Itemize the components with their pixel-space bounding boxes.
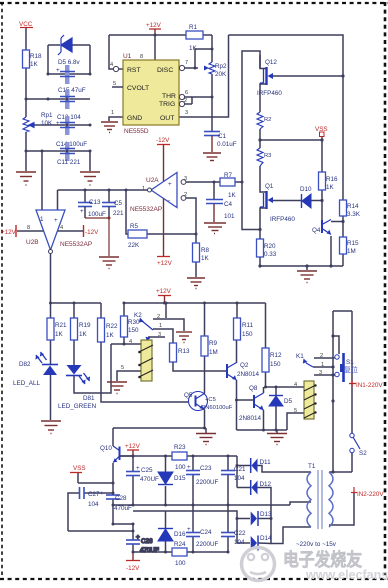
- wire R5 to node: [147, 233, 196, 235]
- wire OUT to rail riser: [179, 35, 229, 117]
- wire D12 anode to lower bridge bus: [258, 488, 312, 544]
- wire node row y=140: [260, 139, 322, 141]
- svg-text:LED_GREEN: LED_GREEN: [58, 403, 97, 410]
- junction dots PSU: [112, 427, 335, 554]
- svg-text:R14: R14: [347, 203, 359, 210]
- svg-text:1K: 1K: [201, 255, 210, 262]
- wire row y=74: [48, 73, 90, 75]
- svg-text:IRFP460: IRFP460: [257, 90, 282, 97]
- ground under caps: [99, 257, 119, 269]
- svg-text:CVOLT: CVOLT: [127, 85, 149, 92]
- wire R7 to gate line: [235, 181, 242, 183]
- svg-text:3: 3: [158, 332, 161, 338]
- wire C27 right lead: [84, 492, 113, 494]
- wire D10 to R16 node: [311, 200, 322, 202]
- resistor R5 22K: [128, 230, 147, 238]
- resistor R30: [121, 316, 128, 337]
- wire bridge feed riser: [236, 456, 238, 488]
- svg-text:-12V: -12V: [85, 229, 99, 236]
- wire node to Q4 base: [321, 201, 323, 222]
- LED D81 LED_GREEN: [66, 365, 90, 384]
- junction dots U2 cluster: [84, 181, 244, 236]
- svg-text:T1: T1: [308, 463, 316, 470]
- wire Q10 emitter to C28: [112, 463, 114, 495]
- wire +12V rail segment B: [124, 302, 266, 304]
- svg-text:GND: GND: [127, 115, 142, 122]
- capacitor C24 2200UF: [186, 533, 200, 537]
- wire R2 to node row140: [259, 129, 261, 148]
- svg-text:LED_ALL: LED_ALL: [13, 380, 40, 387]
- wire right ground drop: [89, 151, 91, 171]
- capacitor C4 101: [206, 200, 223, 204]
- svg-text:NE5532AP: NE5532AP: [130, 206, 162, 213]
- svg-text:100uF: 100uF: [88, 211, 106, 218]
- svg-text:C23: C23: [200, 465, 212, 472]
- svg-text:Q4: Q4: [312, 227, 321, 234]
- svg-text:2: 2: [184, 192, 187, 198]
- svg-text:+: +: [56, 120, 60, 127]
- svg-text:Q1: Q1: [265, 183, 274, 190]
- wire R18 to row99: [25, 68, 27, 99]
- svg-text:3: 3: [184, 176, 187, 182]
- wire coil2 pin5 drop: [287, 413, 304, 430]
- wire K2 pin2 to ground: [153, 319, 184, 331]
- wire R21 stubs: [50, 303, 52, 318]
- svg-text:C15 47uF: C15 47uF: [58, 87, 86, 94]
- wire R13 to Q2 base: [173, 362, 226, 371]
- svg-text:C21: C21: [234, 466, 246, 473]
- wire Q1 drain link to D10: [273, 200, 301, 202]
- wire raw+ row y=456: [120, 455, 172, 457]
- svg-text:IN1-220V: IN1-220V: [356, 382, 383, 389]
- svg-text:Q2: Q2: [240, 362, 249, 369]
- wire VSS stem: [77, 473, 79, 483]
- potentiometer Rp1 10K: [23, 117, 36, 132]
- svg-text:100: 100: [175, 560, 186, 567]
- capacitor C25 470UF: [126, 472, 140, 476]
- svg-text:R19: R19: [79, 322, 91, 329]
- wire mid rail y=505: [113, 504, 290, 506]
- svg-text:U2B: U2B: [26, 239, 39, 246]
- svg-text:U1: U1: [123, 53, 132, 60]
- wire Q1 source to R20: [260, 208, 266, 239]
- svg-text:C26: C26: [141, 538, 153, 545]
- svg-text:2200UF: 2200UF: [196, 479, 219, 486]
- wire pin8 +12V feed: [17, 230, 44, 232]
- LED D82 LED_ALL: [35, 352, 58, 375]
- svg-text:0.33: 0.33: [264, 251, 277, 258]
- wire K1 pin2 stub: [314, 357, 335, 359]
- svg-text:R11: R11: [242, 322, 254, 329]
- svg-text:NE555D: NE555D: [124, 128, 149, 135]
- wire R9 stubs: [204, 303, 206, 336]
- wire C28 bottom to row524: [112, 499, 114, 524]
- svg-text:1M: 1M: [209, 349, 218, 356]
- svg-text:+: +: [168, 181, 172, 188]
- svg-text:6: 6: [185, 90, 188, 96]
- wire node row y=387: [266, 386, 305, 388]
- diode D5 (vertical): [269, 396, 283, 406]
- resistor R8 1K: [193, 243, 200, 262]
- svg-text:1: 1: [321, 362, 324, 368]
- svg-text:5: 5: [121, 365, 124, 371]
- wire +12V rail segment A: [51, 302, 102, 304]
- svg-text:1K: 1K: [189, 45, 198, 52]
- wire VSS drop to R16: [321, 140, 323, 172]
- svg-text:C4: C4: [224, 201, 233, 208]
- svg-text:-: -: [168, 197, 170, 204]
- wire C13b stem: [84, 190, 86, 202]
- wire RST stub: [119, 68, 123, 70]
- wire Q12 source down to R2: [260, 84, 266, 112]
- svg-text:+: +: [187, 526, 191, 533]
- wire RST riser: [109, 35, 113, 69]
- wire VSS row y=483: [78, 482, 113, 484]
- svg-text:THR: THR: [162, 93, 176, 100]
- cap ground tie (dark red): [85, 218, 109, 256]
- svg-text:D10: D10: [300, 186, 312, 193]
- wire C23/C24 column: [192, 456, 194, 470]
- ground right: [80, 172, 100, 185]
- ground left: [16, 172, 36, 185]
- svg-text:3.3K: 3.3K: [347, 211, 361, 218]
- svg-text:150: 150: [242, 331, 253, 338]
- svg-text:C24: C24: [200, 529, 212, 536]
- svg-text:3: 3: [319, 370, 322, 376]
- wire R11 stubs: [236, 303, 238, 318]
- capacitor C13 104: [65, 90, 70, 109]
- ground bottom-mid: [297, 271, 317, 283]
- transistor Q12 IRFP460 (n-mosfet): [260, 67, 267, 85]
- wire row y=524: [113, 523, 133, 525]
- diode D12: [250, 480, 252, 495]
- svg-text:22K: 22K: [128, 242, 140, 249]
- svg-text:R30: R30: [128, 319, 140, 326]
- svg-text:1K: 1K: [106, 332, 115, 339]
- capacitor C11 221: [65, 142, 70, 161]
- resistor R9 1M: [201, 336, 208, 356]
- wire T1 primary top: [329, 471, 352, 473]
- svg-text:D13: D13: [260, 511, 272, 518]
- capacitor C15 47uF: [65, 65, 70, 84]
- svg-text:470UF: 470UF: [140, 547, 159, 554]
- wire D5 stems: [275, 387, 277, 395]
- wire Q8 collector riser: [263, 387, 265, 393]
- wire D5 row segment: [48, 44, 60, 46]
- wire PSU top rail y=428: [113, 427, 205, 429]
- wire Q12 top stub: [260, 55, 266, 69]
- svg-text:D81: D81: [83, 395, 95, 402]
- wire right loop vertical lower: [351, 452, 353, 472]
- op-amp U2A NE5532AP (points left): [151, 173, 177, 208]
- svg-text:S2: S2: [359, 450, 367, 457]
- svg-text:20K: 20K: [215, 71, 227, 78]
- svg-text:4: 4: [294, 382, 297, 388]
- svg-text:RST: RST: [127, 67, 141, 74]
- wire D11 cathode stub: [237, 465, 250, 467]
- ground under D82: [41, 421, 61, 434]
- svg-text:+12V: +12V: [125, 443, 141, 450]
- wire Q10 collector drop: [112, 428, 114, 446]
- svg-text:R15: R15: [347, 240, 359, 247]
- capacitor C1 0.01uF: [204, 132, 220, 136]
- svg-text:221: 221: [113, 210, 124, 217]
- wire K2 pin1 to R13: [153, 329, 173, 343]
- power port VCC: [19, 21, 33, 28]
- wire THR stub: [185, 96, 192, 98]
- wire U2A pin3 stub: [186, 181, 220, 183]
- svg-text:VSS: VSS: [73, 465, 86, 472]
- diode D15: [158, 472, 173, 484]
- svg-text:4: 4: [60, 225, 63, 231]
- transistor Q1 IRFP460 (n-mosfet): [260, 191, 267, 209]
- svg-text:104: 104: [234, 475, 245, 482]
- svg-text:D14: D14: [260, 535, 272, 542]
- zener diode D5 6.8v: [58, 35, 72, 55]
- svg-text:IN2-220V: IN2-220V: [357, 491, 384, 498]
- junction dots 555: [154, 34, 214, 99]
- svg-text:R8: R8: [201, 247, 210, 254]
- svg-text:C13: C13: [89, 199, 101, 206]
- ground next to Q5 emitter: [196, 434, 216, 445]
- junction dots top-left: [25, 73, 92, 153]
- svg-text:C5: C5: [114, 200, 123, 207]
- wire C21/C22 column: [227, 456, 229, 470]
- wire C5b stem: [108, 190, 110, 202]
- wire C27 left lead: [68, 493, 79, 531]
- wire pin8 feed: [154, 35, 156, 60]
- svg-text:Rp1: Rp1: [41, 112, 53, 119]
- transistor Q8 2N8014: [254, 393, 264, 410]
- svg-text:TRIG: TRIG: [159, 101, 175, 108]
- resistor R7: [220, 178, 235, 186]
- wire D5 row y=45 left drop: [47, 45, 49, 74]
- power port -12V (right of U2B): [83, 225, 85, 237]
- resistor R2 (small zigzag): [257, 112, 263, 129]
- svg-text:4: 4: [110, 62, 113, 68]
- resistor R14: [340, 200, 347, 216]
- wire Q4 collector to R14/R15 node: [331, 221, 343, 223]
- wire coil1 pin5 to ground: [117, 371, 141, 381]
- svg-text:150: 150: [128, 327, 139, 334]
- transistor Q4: [322, 220, 331, 235]
- wire Q8 emitter down: [263, 410, 265, 430]
- svg-text:D82: D82: [19, 361, 31, 368]
- resistor R16: [319, 172, 326, 190]
- svg-text:R23: R23: [174, 444, 186, 451]
- svg-text:D5 6.8v: D5 6.8v: [58, 59, 81, 66]
- svg-text:2N8014: 2N8014: [239, 415, 262, 422]
- svg-text:www.elecfans.com: www.elecfans.com: [305, 568, 388, 582]
- pushbutton S1: [335, 355, 339, 359]
- svg-text:D5: D5: [284, 398, 293, 405]
- wire Q12 drain link y=75.5: [273, 75, 343, 77]
- wire R30 to coil pin4: [123, 337, 125, 344]
- wire D15 stems: [165, 456, 167, 472]
- wire bottom row y=266: [260, 265, 343, 267]
- svg-text:1: 1: [159, 323, 162, 329]
- wire D16 stems: [165, 511, 167, 528]
- svg-text:+12V: +12V: [157, 260, 173, 267]
- wire +12V rail y=35: [109, 34, 186, 36]
- svg-text:8: 8: [27, 225, 30, 231]
- svg-text:R13: R13: [178, 348, 190, 355]
- svg-text:100: 100: [175, 464, 186, 471]
- svg-text:R16: R16: [326, 176, 338, 183]
- wire D13 anode stub: [237, 518, 250, 520]
- resistor R15: [340, 237, 347, 254]
- wire D12 cathode stub: [237, 487, 250, 489]
- wire R30 branch: [123, 303, 125, 316]
- diode D11: [250, 458, 252, 473]
- svg-text:C22: C22: [234, 530, 246, 537]
- svg-text:10K: 10K: [41, 120, 53, 127]
- resistor R23 100: [172, 452, 187, 460]
- wire D14 cathode stub: [259, 542, 272, 545]
- wire DISC to pot wiper: [185, 67, 198, 69]
- wire raw- row y=552: [133, 551, 172, 553]
- wire pot to C1: [211, 74, 213, 131]
- svg-text:NE5532AP: NE5532AP: [60, 241, 92, 248]
- resistor R21: [47, 318, 54, 340]
- svg-text:2: 2: [320, 353, 323, 359]
- op-amp U1 NE555D body: [123, 60, 179, 125]
- wire R12 to node387: [265, 372, 267, 387]
- potentiometer Rp2 20K: [209, 62, 215, 74]
- wire wiper row y=125: [31, 124, 90, 126]
- svg-text:+12V: +12V: [1, 229, 17, 236]
- wire T1 mid tap: [290, 502, 311, 505]
- svg-text:R7: R7: [224, 172, 233, 179]
- wire C25 stems: [132, 456, 134, 471]
- svg-text:R9: R9: [209, 340, 218, 347]
- svg-text:R24: R24: [174, 541, 186, 548]
- svg-text:3: 3: [185, 110, 188, 116]
- svg-text:~220v to ~15v: ~220v to ~15v: [296, 541, 337, 548]
- svg-text:-12V: -12V: [126, 565, 140, 572]
- svg-text:R12: R12: [270, 352, 282, 359]
- capacitor C14 100uF: [65, 116, 70, 135]
- power port -12V (PSU bottom): [132, 552, 134, 560]
- wire Q10 base row: [120, 455, 134, 457]
- wire R16 bottom stub: [321, 190, 323, 201]
- wire R14 stubs: [342, 216, 344, 237]
- svg-text:C11 221: C11 221: [57, 159, 81, 166]
- svg-text:S1: S1: [346, 359, 354, 366]
- wire left ground drop: [25, 151, 27, 171]
- svg-text:7: 7: [185, 60, 188, 66]
- resistor R20: [257, 239, 264, 257]
- power port IN2-220V: [353, 487, 355, 493]
- resistor R19: [71, 318, 78, 340]
- svg-text:Rp2: Rp2: [215, 63, 227, 70]
- svg-text:+: +: [54, 217, 58, 224]
- svg-text:104: 104: [234, 539, 245, 546]
- op-amp U2B NE5532AP (points down): [36, 210, 65, 250]
- wire C26 stems: [132, 524, 134, 540]
- wire K1 pin3 stub: [314, 374, 335, 376]
- wire row y=531: [68, 530, 133, 532]
- wire D14 anode stub: [237, 542, 250, 544]
- wire GND pin: [109, 117, 123, 121]
- watermark logo circle: [242, 548, 275, 581]
- ground under R8: [187, 278, 205, 289]
- wire D81 cathode to relay: [74, 344, 111, 393]
- svg-text:C28: C28: [115, 495, 127, 502]
- wire R22 stubs: [100, 303, 102, 318]
- wire Q4 emitter down: [330, 236, 332, 266]
- power port +12V below U2A: [163, 199, 165, 257]
- wire Q2 to Q8 base: [237, 399, 255, 401]
- svg-text:101: 101: [224, 213, 235, 220]
- svg-text:C14 100uF: C14 100uF: [56, 141, 87, 148]
- svg-text:D16: D16: [174, 531, 186, 538]
- svg-text:R2: R2: [264, 117, 271, 123]
- svg-text:Q5: Q5: [184, 392, 193, 399]
- wire DISC branch up: [195, 49, 212, 68]
- wire D13 cathode stub: [259, 518, 272, 520]
- svg-text:复位: 复位: [344, 365, 358, 374]
- svg-text:+C5: +C5: [205, 397, 216, 403]
- svg-text:+: +: [187, 464, 191, 471]
- junction dots mid section: [49, 302, 335, 432]
- wire Q2 emitter down: [236, 380, 238, 430]
- svg-text:C1: C1: [218, 133, 227, 140]
- wire emitter row y=430: [237, 429, 288, 431]
- svg-text:+: +: [80, 208, 84, 215]
- capacitor C26 470UF: [126, 540, 140, 544]
- svg-text:C25: C25: [141, 467, 153, 474]
- wire rail B corner to R12: [265, 303, 267, 348]
- svg-text:1: 1: [40, 216, 44, 223]
- svg-text:2N60100uF: 2N60100uF: [202, 405, 233, 411]
- ground under row430: [267, 434, 287, 445]
- svg-text:R1: R1: [189, 24, 198, 31]
- wire TRIG stub: [185, 103, 192, 105]
- svg-text:IRFP460: IRFP460: [270, 216, 295, 223]
- svg-text:1K: 1K: [30, 61, 39, 68]
- resistor R22: [98, 318, 105, 342]
- svg-text:R20: R20: [264, 243, 276, 250]
- svg-text:1K: 1K: [228, 192, 237, 199]
- svg-text:R18: R18: [30, 53, 42, 60]
- svg-text:104: 104: [88, 501, 99, 508]
- ground under C4: [204, 223, 226, 234]
- svg-text:+12V: +12V: [156, 288, 172, 295]
- diode D14: [257, 536, 259, 551]
- svg-text:+: +: [136, 465, 140, 472]
- svg-text:2N8014: 2N8014: [237, 371, 260, 378]
- svg-text:C27: C27: [88, 491, 100, 498]
- wire K2 rail tap: [165, 303, 167, 318]
- svg-text:K2: K2: [134, 312, 142, 319]
- wire mid rail2 y=511: [133, 511, 237, 543]
- svg-text:2: 2: [184, 98, 187, 104]
- wire K1 pin1 stub: [313, 366, 333, 368]
- wire THR/TRIG tie: [192, 97, 212, 104]
- ground at 555 GND pin: [101, 122, 118, 133]
- capacitor C21 104: [221, 471, 235, 475]
- power port IN1-220V: [351, 380, 353, 387]
- svg-text:+12V: +12V: [146, 22, 162, 29]
- wire U2B right input riser: [57, 190, 59, 210]
- resistor R18: [23, 50, 30, 68]
- svg-text:R22: R22: [106, 323, 118, 330]
- capacitor C5 221: [102, 203, 116, 207]
- svg-text:D12: D12: [260, 481, 272, 488]
- svg-text:0.01uF: 0.01uF: [217, 141, 237, 148]
- svg-text:1M: 1M: [347, 248, 356, 255]
